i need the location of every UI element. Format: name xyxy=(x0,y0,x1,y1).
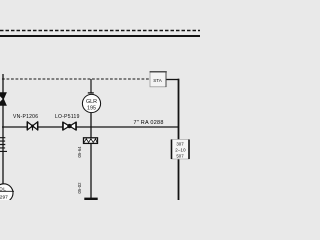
svg-text:VN-P1206: VN-P1206 xyxy=(13,114,38,120)
bottom strainer box (cut off) xyxy=(84,198,97,200)
dashed signal line to STA xyxy=(2,78,150,80)
svg-text:STA: STA xyxy=(153,78,163,83)
wire STA box to right vertical xyxy=(166,79,180,81)
svg-text:LO-P5119: LO-P5119 xyxy=(55,114,80,120)
svg-text:297: 297 xyxy=(0,195,8,200)
svg-text:507: 507 xyxy=(176,154,184,159)
svg-text:195: 195 xyxy=(87,106,96,112)
wire GLR to pipe and down xyxy=(90,113,92,138)
battery-limit dashed line xyxy=(0,30,200,32)
left vertical pipe xyxy=(2,74,4,184)
svg-text:05-02: 05-02 xyxy=(77,182,82,194)
instrument bubble GLR 195 xyxy=(82,94,100,112)
STA box xyxy=(150,72,166,87)
svg-text:GLR: GLR xyxy=(86,99,97,105)
valve LO-P5119 (ball valve) xyxy=(63,122,76,131)
battery-limit solid line xyxy=(0,35,200,37)
vertical line dashed-line to GLR bubble xyxy=(90,79,92,93)
strainer box on center line xyxy=(84,138,98,144)
svg-text:7" RA 0288: 7" RA 0288 xyxy=(134,120,164,126)
valve VN-P1206 xyxy=(27,122,38,131)
bellows on left pipe xyxy=(0,138,7,152)
instrument bubble bottom-left xyxy=(0,184,13,202)
svg-text:2–10: 2–10 xyxy=(175,148,186,153)
main pipe 7" RA 0288 xyxy=(2,126,179,128)
inline label box 307/2-10/507 xyxy=(172,140,190,160)
center line to bottom xyxy=(90,144,92,199)
right vertical wire xyxy=(178,79,180,200)
svg-text:307: 307 xyxy=(176,142,184,147)
svg-text:DL: DL xyxy=(0,186,6,192)
cap bar above GLR xyxy=(88,92,94,94)
svg-text:05-64: 05-64 xyxy=(77,146,82,158)
closed valve (filled) on left pipe xyxy=(0,93,6,106)
